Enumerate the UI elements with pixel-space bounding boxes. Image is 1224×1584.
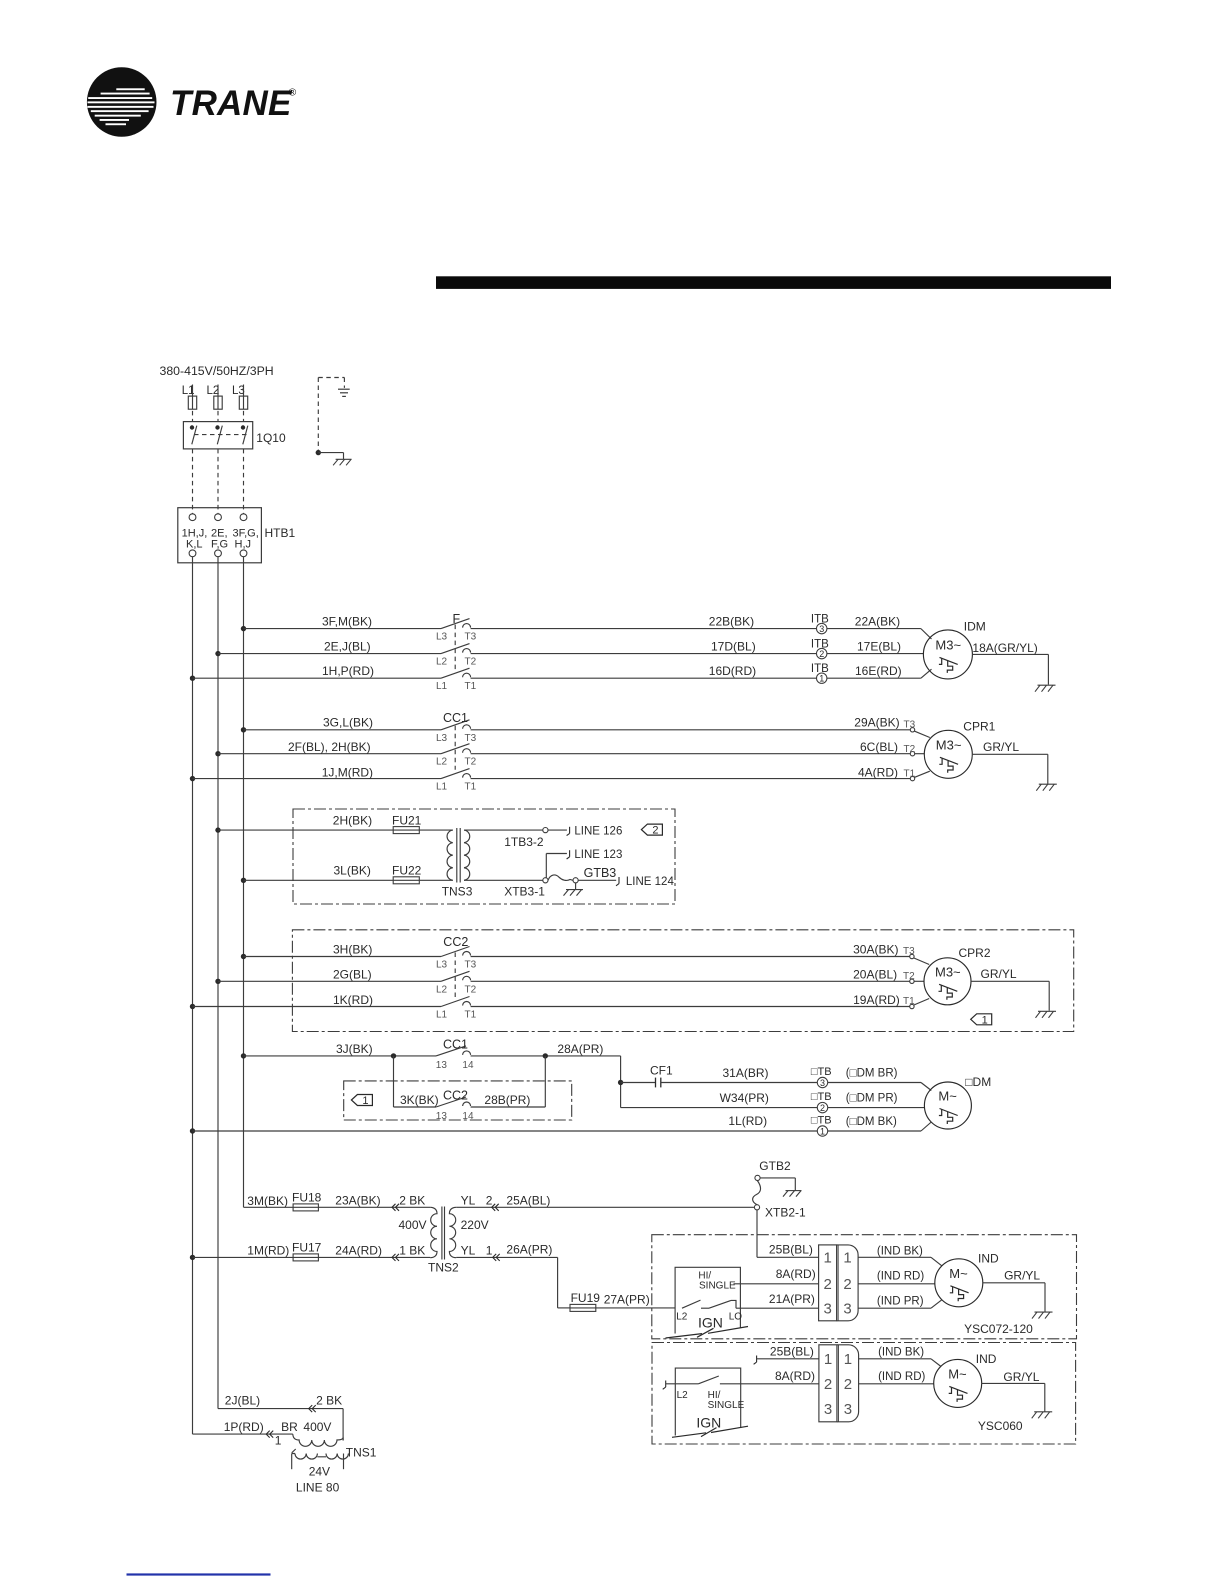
svg-text:IND: IND: [976, 1352, 997, 1366]
svg-text:1M(RD): 1M(RD): [247, 1244, 289, 1258]
contactor F pole L3-T3: [441, 619, 471, 629]
wire OTB1 to ODM: [828, 1122, 932, 1131]
terminal 1TB3-2: [543, 828, 548, 833]
chevron 2 BK: [392, 1204, 399, 1211]
wire 1H,P(RD) to contactor F: [193, 677, 442, 679]
svg-text:YSC072-120: YSC072-120: [964, 1322, 1033, 1336]
junction 28A/28B: [543, 1053, 548, 1058]
svg-text:1: 1: [275, 1434, 282, 1448]
CPR2 terminal T1: [903, 996, 915, 1009]
wire CPR1 ground: [973, 754, 1048, 784]
transformer TNS1 secondary: [292, 1449, 349, 1469]
svg-text:380-415V/50HZ/3PH: 380-415V/50HZ/3PH: [160, 364, 274, 378]
svg-text:1: 1: [486, 1243, 493, 1257]
motor ODM: [924, 1082, 971, 1129]
svg-text:LINE 124: LINE 124: [626, 876, 675, 888]
svg-text:M~: M~: [938, 1089, 957, 1104]
flag 2: [641, 824, 662, 837]
title bar: [436, 276, 1111, 289]
svg-text:1 BK: 1 BK: [399, 1243, 425, 1257]
svg-text:FU22: FU22: [392, 863, 422, 877]
wire 27A(PR): [596, 1307, 675, 1309]
wire 3H(BK) to CC2: [244, 956, 442, 958]
svg-text:(IND RD): (IND RD): [878, 1371, 925, 1383]
svg-text:T1: T1: [465, 1010, 477, 1021]
ground node junction: [316, 450, 321, 455]
HTB1 bottom terminal col1: [189, 550, 196, 557]
contactor CC1 pole L1-T1: [441, 769, 471, 779]
wire 28A(PR): [471, 1056, 621, 1108]
svg-text:XTB2-1: XTB2-1: [765, 1206, 806, 1220]
compressor 2 box (dash-dot): [292, 930, 1073, 1032]
svg-text:17E(BL): 17E(BL): [857, 640, 901, 654]
wire XTB2-1 to GTB2 (loop): [753, 1181, 761, 1205]
connector J1 (YSC060): [819, 1345, 859, 1422]
svg-text:21A(PR): 21A(PR): [769, 1292, 815, 1306]
svg-text:2: 2: [652, 825, 658, 837]
transformer TNS3 secondary: [464, 830, 470, 880]
svg-text:14: 14: [462, 1060, 474, 1071]
wire FU22 to TNS3: [419, 879, 453, 881]
wire 2G(BL) to CC2: [218, 980, 441, 982]
svg-text:L1: L1: [436, 1010, 448, 1021]
svg-text:□TB: □TB: [811, 1115, 832, 1127]
svg-text:L2: L2: [436, 984, 448, 995]
svg-text:1L(RD): 1L(RD): [728, 1114, 767, 1128]
transformer TNS2 primary: [430, 1207, 437, 1257]
svg-text:2H(BK): 2H(BK): [333, 814, 372, 828]
connector pins 2 2 (YSC060): [824, 1376, 852, 1393]
svg-text:2: 2: [820, 1103, 825, 1113]
wire-end tick LINE 126: [567, 827, 570, 836]
transformer TNS3 primary: [447, 830, 453, 880]
wire 8A(RD) (YSC060): [720, 1383, 819, 1385]
svg-text:1: 1: [824, 1351, 832, 1368]
svg-text:T2: T2: [465, 984, 477, 995]
junction CF1 node: [618, 1080, 623, 1085]
wire 1M(RD): [193, 1256, 294, 1258]
svg-text:3L(BK): 3L(BK): [334, 863, 371, 877]
chassis ground symbol (main): [333, 459, 352, 465]
terminal XTB3-1: [543, 878, 548, 883]
wire GTB2 to chassis: [760, 1178, 795, 1191]
wire 3K(BK): [394, 1106, 437, 1108]
terminal OTB 2: [817, 1102, 827, 1113]
svg-text:IGN: IGN: [696, 1415, 721, 1431]
wire IND ground (YSC072): [983, 1283, 1045, 1312]
wire-end tick 25B (YSC060): [754, 1356, 757, 1365]
svg-text:1: 1: [362, 1095, 368, 1107]
svg-text:22A(BK): 22A(BK): [855, 615, 900, 629]
svg-text:T2: T2: [465, 657, 477, 668]
svg-text:T2: T2: [904, 744, 916, 755]
wire 1Q10 to HTB1 col3 (dashed): [243, 449, 245, 514]
1Q10 pole 1: [190, 425, 197, 444]
svg-text:W34(PR): W34(PR): [720, 1091, 769, 1105]
svg-text:L1: L1: [436, 782, 448, 793]
svg-text:220V: 220V: [461, 1218, 489, 1232]
contactor CC1 terminal labels: [436, 733, 477, 793]
svg-text:BR: BR: [281, 1420, 298, 1434]
wire input to switch (YSC060): [666, 1383, 699, 1385]
svg-text:2E,J(BL): 2E,J(BL): [324, 640, 371, 654]
HTB1 bottom terminal col2: [215, 550, 222, 557]
svg-text:2 BK: 2 BK: [316, 1394, 342, 1408]
wire FU21 to TNS3: [419, 829, 453, 831]
HTB1 top terminal col2: [215, 514, 222, 521]
connector J1 (YSC072): [819, 1245, 859, 1321]
svg-text:M3~: M3~: [936, 737, 962, 752]
wire ground node to chassis: [318, 453, 343, 460]
svg-text:GR/YL: GR/YL: [1004, 1269, 1040, 1283]
terminal block HTB1 box: [178, 508, 262, 563]
wire to CF1: [621, 1082, 656, 1084]
junction 3J/3K: [391, 1053, 396, 1058]
wire 3M(BK): [244, 1206, 294, 1208]
svg-text:SINGLE: SINGLE: [699, 1281, 736, 1292]
svg-text:CC1: CC1: [443, 1038, 468, 1052]
svg-text:LINE 126: LINE 126: [574, 826, 622, 838]
wire (IND RD) (YSC060): [859, 1383, 934, 1385]
connector pins 3 3 (YSC072): [824, 1301, 852, 1318]
wire 22B(BK): [471, 628, 817, 630]
svg-text:F,G: F,G: [211, 538, 228, 550]
svg-text:M~: M~: [949, 1266, 968, 1281]
condenser fan box YSC072-120 (dash-dot): [652, 1235, 1077, 1339]
wire-end tick LINE 124: [616, 877, 619, 886]
wire 3L(BK): [244, 879, 394, 881]
svg-text:2 BK: 2 BK: [399, 1193, 425, 1207]
transformer TNS2 secondary: [449, 1207, 456, 1257]
aux contact CC2 13-14: [436, 1097, 471, 1107]
fuse FU17: [293, 1254, 318, 1261]
wire 23A(BK): [318, 1206, 430, 1208]
contactor F pole L1-T1: [441, 668, 471, 678]
svg-text:CC2: CC2: [443, 935, 468, 949]
wire (IND BK): [858, 1257, 942, 1266]
HTB1 top terminal col3: [240, 514, 247, 521]
bus junction dots: [190, 626, 246, 1260]
svg-text:3: 3: [824, 1301, 832, 1318]
svg-text:1K(RD): 1K(RD): [333, 993, 373, 1007]
terminal OTB 3: [817, 1077, 827, 1088]
contactor CC2 terminal labels: [436, 960, 477, 1021]
svg-text:L3: L3: [436, 733, 448, 744]
svg-text:3M(BK): 3M(BK): [247, 1194, 288, 1208]
svg-text:18A(GR/YL): 18A(GR/YL): [972, 641, 1037, 655]
chassis ground CPR2: [1036, 1011, 1057, 1018]
chassis ground IDM: [1035, 685, 1056, 692]
labels ITB: [811, 614, 829, 676]
svg-text:23A(BK): 23A(BK): [335, 1193, 380, 1207]
svg-text:17D(BL): 17D(BL): [711, 640, 756, 654]
svg-text:GTB2: GTB2: [759, 1159, 791, 1173]
wire 22A(BK): [827, 629, 932, 639]
svg-text:YL: YL: [461, 1243, 476, 1257]
svg-text:YL: YL: [461, 1193, 476, 1207]
terminal OTB 1: [817, 1126, 827, 1137]
svg-text:13: 13: [436, 1060, 448, 1071]
HTB1 wire markings: [182, 528, 259, 551]
switch blade (YSC060): [698, 1376, 718, 1384]
wire 6C(BL): [471, 753, 925, 755]
svg-text:25A(BL): 25A(BL): [506, 1193, 550, 1207]
terminal ITB 1: [817, 673, 827, 684]
svg-text:19A(RD): 19A(RD): [853, 993, 900, 1007]
svg-text:25B(BL): 25B(BL): [770, 1345, 814, 1359]
svg-text:CC2: CC2: [443, 1089, 468, 1103]
svg-text:3: 3: [843, 1301, 851, 1318]
wire 16E(RD): [827, 669, 932, 678]
wire fuse L2 to 1Q10 (dashed): [217, 411, 219, 422]
wire W34(PR): [621, 1107, 818, 1109]
svg-text:GR/YL: GR/YL: [983, 740, 1019, 754]
svg-text:IDM: IDM: [964, 620, 986, 634]
svg-text:T1: T1: [904, 768, 916, 779]
svg-text:3K(BK): 3K(BK): [400, 1093, 439, 1107]
svg-text:T3: T3: [465, 733, 477, 744]
svg-text:16D(RD): 16D(RD): [709, 664, 756, 678]
speed switch box (YSC060): [675, 1368, 740, 1435]
chassis ground GTB3: [564, 890, 584, 896]
svg-text:□TB: □TB: [811, 1091, 832, 1103]
svg-text:4A(RD): 4A(RD): [858, 765, 898, 779]
contactor F link (dashed): [454, 625, 456, 670]
wire 26A(PR): [456, 1257, 570, 1308]
motor CPR2: [924, 958, 971, 1005]
terminal XTB2-1: [754, 1205, 759, 1210]
svg-text:3J(BK): 3J(BK): [336, 1042, 373, 1056]
svg-text:M~: M~: [948, 1366, 967, 1381]
svg-text:13: 13: [436, 1111, 448, 1122]
svg-text:2: 2: [824, 1376, 832, 1393]
aux contact CC1 13-14: [436, 1046, 471, 1056]
wire LINE 123 branch: [546, 854, 567, 878]
low ambient box (dash-dot): [344, 1081, 572, 1120]
svg-text:3G,L(BK): 3G,L(BK): [323, 716, 373, 730]
chevron YL 2: [492, 1204, 499, 1211]
transformer TNS1 primary: [293, 1434, 343, 1446]
fuse L3 lead: [243, 385, 245, 397]
svg-text:FU18: FU18: [292, 1191, 322, 1205]
svg-text:L3: L3: [436, 632, 448, 643]
svg-text:1TB3-2: 1TB3-2: [504, 835, 544, 849]
wire 2J(BL): [218, 1409, 343, 1441]
svg-text:30A(BK): 30A(BK): [853, 943, 898, 957]
wire between blades (YSC072): [701, 1307, 709, 1309]
fuse FU18: [293, 1204, 318, 1211]
wire 3G,L(BK) to CC1: [244, 729, 442, 731]
svg-text:(IND BK): (IND BK): [877, 1246, 923, 1258]
wire (IND RD): [858, 1283, 935, 1285]
motor CPR1: [924, 730, 972, 778]
transformer TNS2 core: [442, 1207, 445, 1260]
wire TNS3 to 1TB3-2: [464, 829, 543, 831]
fuse L2 lead: [217, 385, 219, 397]
svg-text:TNS1: TNS1: [346, 1446, 377, 1460]
contactor CC1 pole L2-T2: [441, 744, 471, 754]
wire 1L(RD): [193, 1130, 818, 1132]
svg-text:®: ®: [289, 87, 297, 99]
bus wire phase 1 (col1): [192, 557, 194, 1434]
svg-text:1H,P(RD): 1H,P(RD): [322, 664, 374, 678]
igniter strike (YSC072): [666, 1327, 749, 1339]
terminal GTB3: [573, 878, 578, 883]
svg-text:TRANE: TRANE: [170, 84, 293, 123]
svg-text:□DM: □DM: [965, 1075, 991, 1089]
svg-text:TNS2: TNS2: [428, 1261, 459, 1275]
svg-text:L1: L1: [436, 681, 448, 692]
svg-text:(IND BK): (IND BK): [878, 1347, 924, 1359]
CPR2 terminal T2: [903, 971, 915, 984]
1Q10 pole link (dashed): [194, 434, 249, 436]
svg-text:IND: IND: [978, 1252, 999, 1266]
contactor CC2 pole L3-T3: [441, 947, 471, 957]
svg-text:1: 1: [824, 1250, 832, 1267]
wire 17E(BL): [827, 653, 924, 655]
chassis ground IND (YSC060): [1032, 1412, 1053, 1419]
svg-text:3: 3: [824, 1401, 832, 1418]
svg-text:LO: LO: [729, 1311, 743, 1322]
svg-text:YSC060: YSC060: [978, 1419, 1023, 1433]
svg-text:1: 1: [820, 1126, 825, 1136]
HTB1 bottom terminal col3: [240, 550, 247, 557]
transformer TNS3 core: [457, 828, 460, 883]
1Q10 pole 2: [215, 425, 222, 444]
chevron YL 1: [493, 1254, 500, 1261]
svg-text:2: 2: [844, 1376, 852, 1393]
fuse L1: [188, 396, 196, 409]
Trane logo wordmark: [170, 84, 297, 123]
connector pins 3 3 (YSC060): [824, 1401, 852, 1418]
motor IDM: [923, 630, 972, 679]
svg-text:FU21: FU21: [392, 813, 422, 827]
condenser fan box YSC060 (dash-dot): [652, 1343, 1076, 1445]
wire 29A(BK): [471, 730, 930, 738]
fuse L1 lead: [192, 385, 194, 397]
svg-text:L2: L2: [436, 757, 448, 768]
fuse L3: [239, 396, 247, 409]
wire 4A(RD): [471, 771, 930, 778]
svg-text:8A(RD): 8A(RD): [775, 1369, 815, 1383]
CPR2 terminal T3: [903, 946, 915, 959]
svg-text:3F,M(BK): 3F,M(BK): [322, 615, 372, 629]
svg-text:L3: L3: [232, 385, 245, 397]
switch blade L2 (YSC072): [682, 1300, 701, 1308]
bus wire phase 3 (col3): [243, 557, 245, 1208]
svg-text:1: 1: [982, 1014, 988, 1026]
chevron 1 BK: [392, 1254, 399, 1261]
svg-text:FU17: FU17: [292, 1241, 322, 1255]
svg-text:H,J: H,J: [235, 538, 252, 550]
wire 25A(BL): [456, 1206, 754, 1208]
HTB1 top terminal col1: [189, 514, 196, 521]
svg-text:2F(BL), 2H(BK): 2F(BL), 2H(BK): [288, 740, 371, 754]
svg-text:2: 2: [486, 1193, 493, 1207]
svg-text:K,L: K,L: [186, 538, 203, 550]
bus wire phase 2 (col2): [217, 557, 219, 1409]
wire-end tick input (YSC060): [663, 1381, 666, 1390]
svg-text:GR/YL: GR/YL: [981, 967, 1017, 981]
svg-text:3: 3: [819, 624, 824, 634]
chassis ground CPR1: [1036, 784, 1057, 791]
svg-text:3H(BK): 3H(BK): [333, 943, 372, 957]
svg-text:20A(BL): 20A(BL): [853, 968, 897, 982]
svg-text:2: 2: [824, 1276, 832, 1293]
svg-text:CF1: CF1: [650, 1063, 673, 1077]
svg-text:L3: L3: [436, 960, 448, 971]
contactor CC2 pole L2-T2: [441, 971, 471, 981]
wire 28B(PR): [471, 1056, 546, 1107]
motor IND (YSC072): [935, 1259, 983, 1307]
svg-text:28B(PR): 28B(PR): [484, 1093, 530, 1107]
wire (IND PR): [858, 1300, 942, 1308]
terminal GTB2: [755, 1175, 760, 1180]
flag 1 (low ambient): [351, 1095, 372, 1108]
svg-text:(□DM BK): (□DM BK): [846, 1116, 897, 1128]
capacitor CF1: [656, 1078, 661, 1088]
chassis ground GTB2: [783, 1191, 802, 1197]
svg-text:T2: T2: [903, 971, 915, 982]
fuse FU21: [393, 827, 419, 834]
wire 30A(BK): [471, 957, 930, 965]
wire (IND BK) (YSC060): [859, 1359, 941, 1367]
CPR1 terminal T3: [904, 719, 916, 732]
chassis ground IND (YSC072): [1032, 1312, 1053, 1319]
wire 25B(BL) (YSC060): [757, 1358, 819, 1360]
wire 21A(PR): [736, 1307, 819, 1309]
contactor CC1 link (dashed): [454, 726, 456, 770]
svg-text:L2: L2: [207, 385, 220, 397]
wire 2F(BL),2H(BK) to CC1: [218, 753, 441, 755]
chevron 2 BK (TNS1): [309, 1405, 316, 1412]
wire 1J,M(RD) to CC1: [193, 778, 442, 780]
svg-text:F: F: [453, 612, 461, 626]
wire 20A(BL): [471, 980, 924, 982]
igniter strike (YSC060): [672, 1426, 748, 1437]
wire 2E,J(BL) to contactor F: [218, 653, 441, 655]
motor IND (YSC060): [934, 1359, 982, 1407]
terminal ITB 3: [817, 623, 827, 634]
svg-text:1P(RD): 1P(RD): [224, 1420, 264, 1434]
svg-text:400V: 400V: [303, 1420, 331, 1434]
connector pins 2 2 (YSC072): [824, 1276, 852, 1293]
svg-text:SINGLE: SINGLE: [708, 1400, 745, 1411]
terminal ITB 2: [817, 648, 827, 659]
wire GTB3 to LINE 124: [578, 879, 616, 881]
svg-text:26A(PR): 26A(PR): [506, 1242, 552, 1256]
svg-text:TNS3: TNS3: [442, 884, 473, 898]
svg-text:1: 1: [844, 1351, 852, 1368]
svg-text:1J,M(RD): 1J,M(RD): [322, 765, 373, 779]
contactor F pole L2-T2: [441, 644, 471, 654]
fuse FU19: [570, 1304, 596, 1311]
svg-text:3: 3: [844, 1401, 852, 1418]
svg-text:8A(RD): 8A(RD): [776, 1267, 816, 1281]
control box TNS3 (dash-dot): [293, 809, 675, 904]
wire TNS3 to XTB3-1: [464, 879, 543, 881]
connector pins 1 1 (YSC060): [824, 1351, 852, 1368]
contactor CC1 pole L3-T3: [441, 720, 471, 730]
contactor F terminal labels: [436, 632, 477, 693]
svg-text:22B(BK): 22B(BK): [709, 615, 754, 629]
wire 1K(RD) to CC2: [193, 1006, 442, 1008]
connector pins 1 1 (YSC072): [824, 1250, 852, 1267]
wire 16D(RD): [471, 677, 817, 679]
svg-text:T3: T3: [903, 946, 915, 957]
svg-text:6C(BL): 6C(BL): [860, 740, 898, 754]
svg-text:1Q10: 1Q10: [256, 431, 286, 445]
